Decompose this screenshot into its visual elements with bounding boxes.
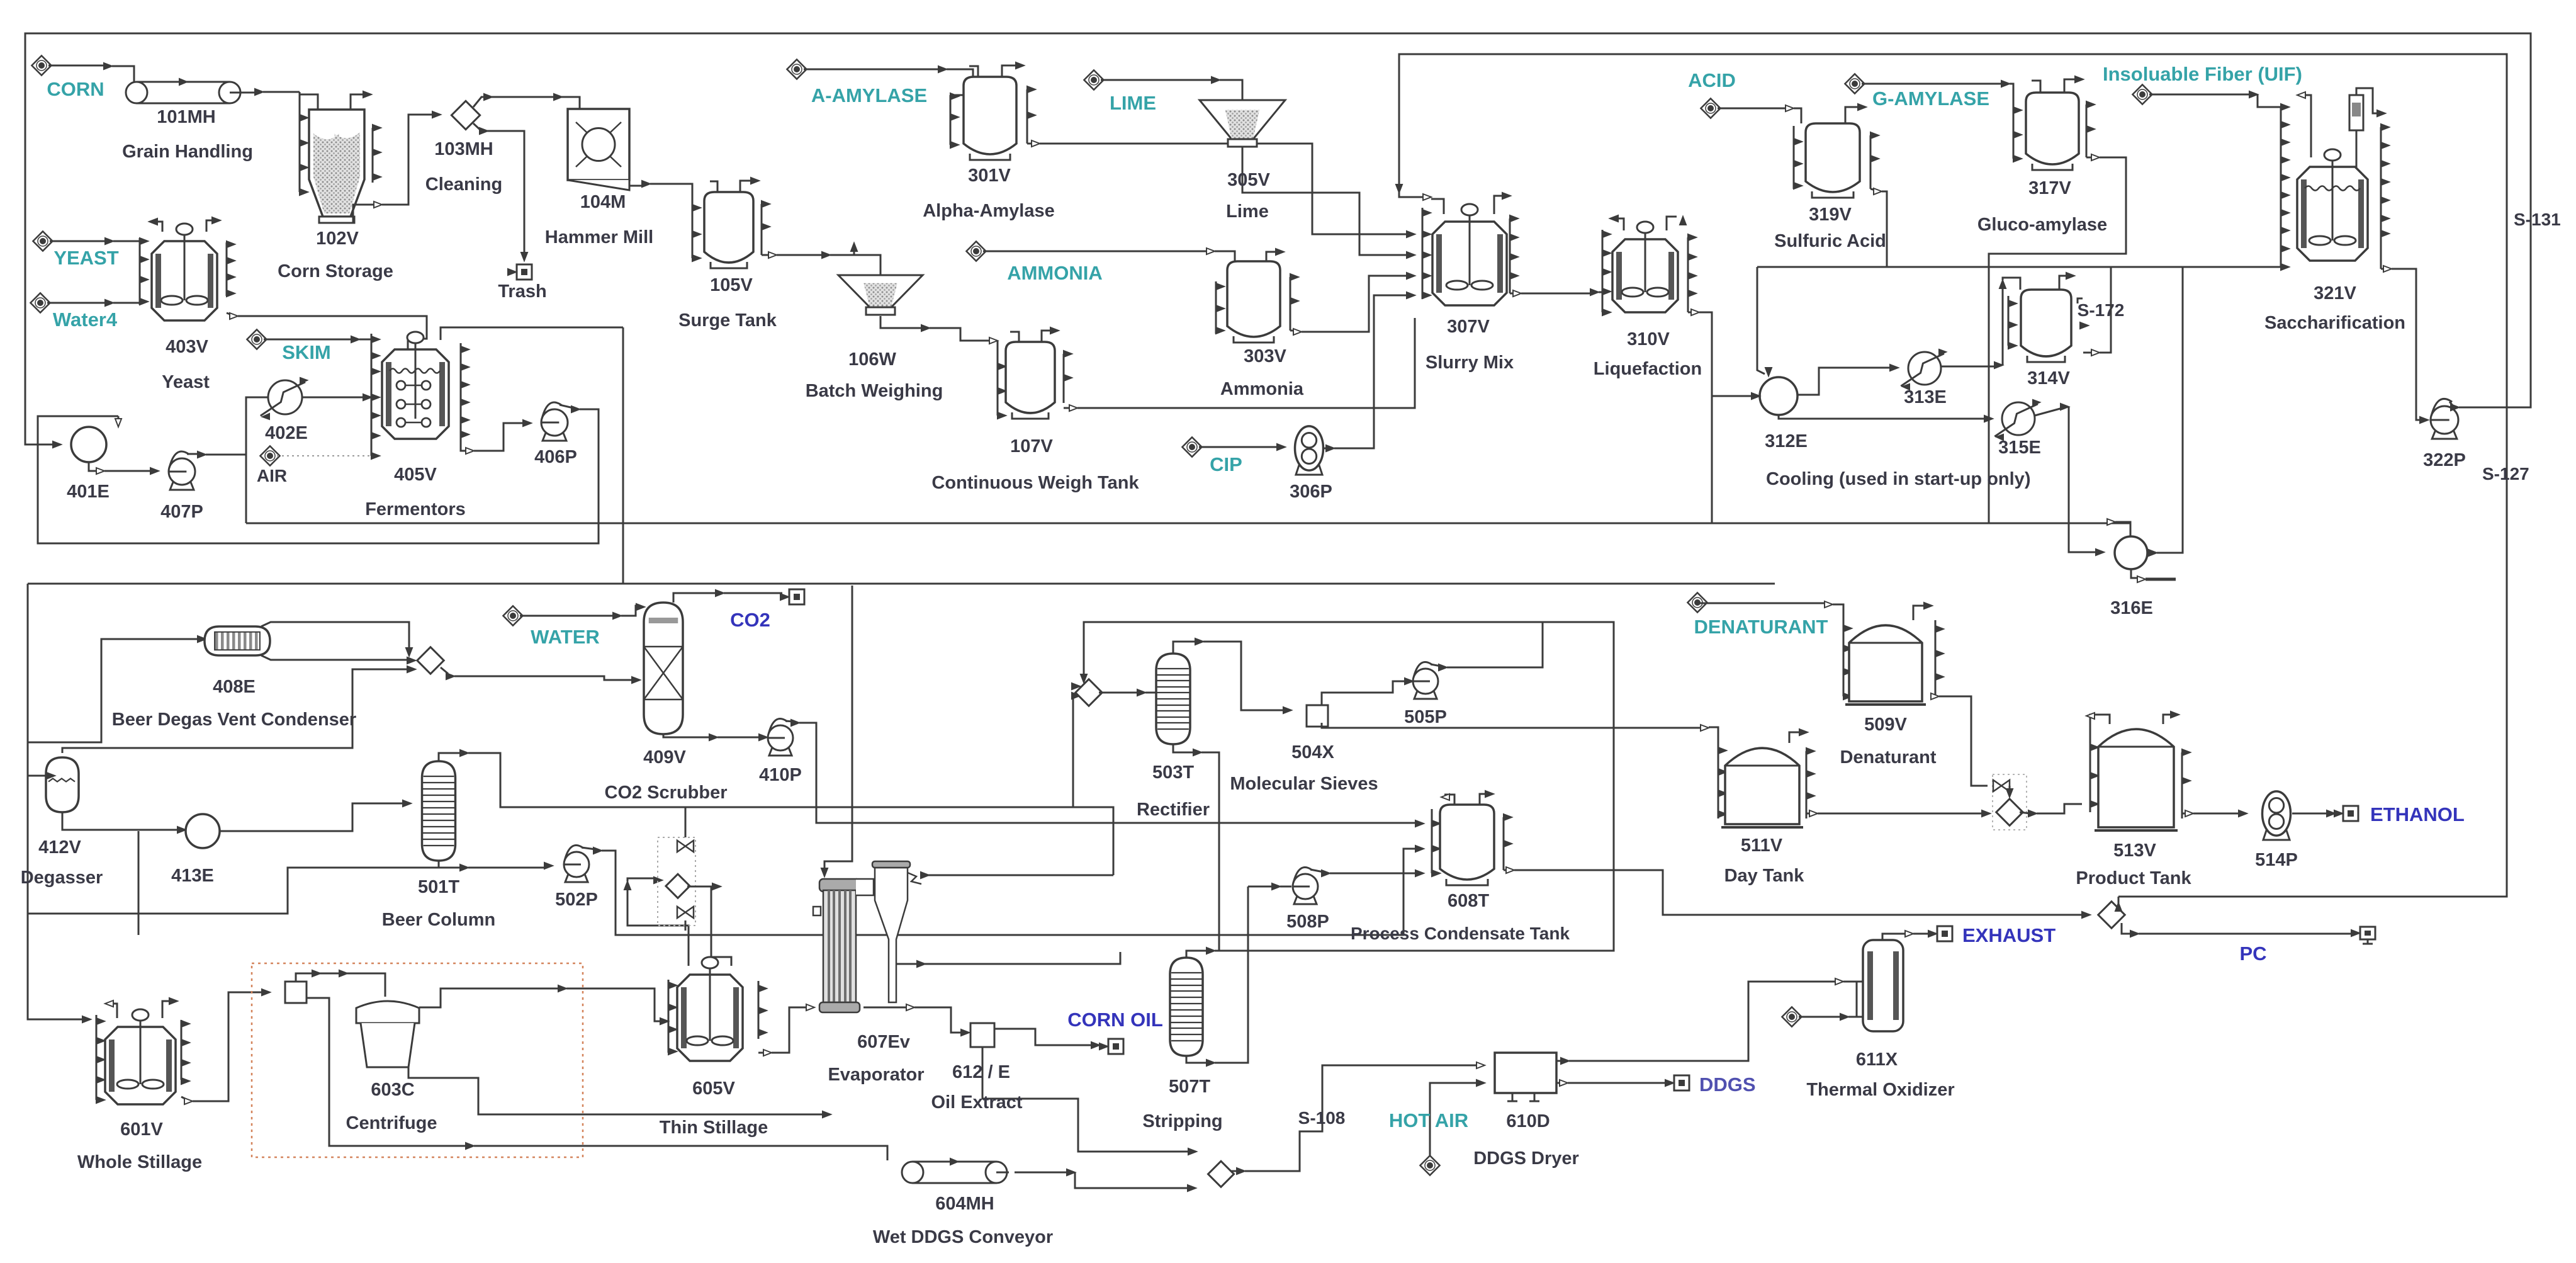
wire LIME to 305V [1101, 79, 1213, 81]
manifold 513V right [2181, 752, 2183, 818]
manifold 319V right [1870, 135, 1872, 189]
pump 508P [1294, 893, 1317, 904]
svg-text:PC: PC [2239, 943, 2266, 965]
manifold 601V left [96, 1015, 98, 1100]
wire 511V top right stub [1789, 732, 1801, 743]
tank 513V Product Tank [2098, 729, 2174, 827]
svg-text:Degasser: Degasser [21, 868, 103, 888]
wire UIF to 321V [2149, 94, 2251, 96]
svg-text:504X: 504X [1291, 742, 1334, 762]
svg-text:CO2 Scrubber: CO2 Scrubber [605, 783, 728, 803]
svg-text:Cooling (used in start-up only: Cooling (used in start-up only) [1766, 469, 2030, 489]
vessel 608T Process Condensate Tank [1440, 805, 1494, 880]
wire 601V top stubs [108, 1004, 117, 1018]
svg-text:402E: 402E [265, 423, 308, 443]
wire 305V outlet to slurry [1242, 147, 1409, 255]
svg-text:Water4: Water4 [53, 309, 118, 331]
pump 407P [170, 479, 194, 490]
node junction silo feed [300, 92, 318, 110]
svg-text:605V: 605V [692, 1079, 735, 1099]
wire 406P recycle loop [560, 405, 573, 408]
manifold 511V right [1806, 751, 1808, 818]
manifold 513V left [2089, 730, 2091, 812]
svg-text:612 / E: 612 / E [952, 1062, 1010, 1082]
svg-text:514P: 514P [2255, 850, 2298, 870]
output connector EXHAUST [1937, 926, 1952, 941]
input connector AMMONIA [966, 241, 986, 261]
wire 508P inlet from stripper [1248, 886, 1274, 888]
splitter 103MH Cleaning [451, 101, 480, 129]
wire 314V outlet [2083, 352, 2093, 354]
svg-text:HOT AIR: HOT AIR [1389, 1109, 1468, 1131]
svg-text:501T: 501T [418, 877, 459, 897]
svg-text:406P: 406P [534, 447, 577, 467]
wire 306P outlet to slurry [1324, 448, 1328, 450]
hopper 305V Lime [1200, 100, 1285, 139]
dashed box thin stillage valves [658, 837, 695, 926]
manifold 317V left [2013, 110, 2015, 159]
svg-text:503T: 503T [1152, 762, 1194, 783]
svg-text:Denaturant: Denaturant [1840, 747, 1936, 767]
wire branch to 408E [28, 639, 200, 742]
svg-text:410P: 410P [759, 765, 802, 785]
manifold 511V left [1718, 737, 1719, 818]
wire 316E outlet to 321V [2147, 552, 2151, 554]
wire 405V outlet to 406P [461, 441, 468, 451]
hopper 106W Batch Weighing [838, 275, 923, 307]
svg-text:G-AMYLASE: G-AMYLASE [1872, 88, 1989, 110]
wire 514P to ETHANOL [2292, 813, 2329, 815]
manifold 403V left [139, 238, 141, 305]
svg-text:405V: 405V [394, 465, 437, 485]
svg-text:ACID: ACID [1688, 69, 1736, 91]
svg-text:AMMONIA: AMMONIA [1007, 262, 1103, 284]
valve denaturant blend [1993, 780, 2010, 791]
mixer diamond thin stillage [666, 874, 690, 898]
manifold 317V right [2086, 105, 2088, 157]
wire 401E to 407P [89, 462, 98, 471]
input connector YEAST line [33, 231, 52, 251]
svg-text:603C: 603C [371, 1080, 414, 1100]
svg-text:511V: 511V [1741, 835, 1783, 856]
svg-text:513V: 513V [2113, 841, 2156, 861]
svg-text:CORN: CORN [47, 78, 104, 100]
wire DENATURANT to 509V [1700, 603, 1826, 604]
wire 315E to 316E feed leg [2035, 408, 2062, 416]
wire A-AMYLASE to 301V [804, 69, 940, 71]
svg-text:Oil Extract: Oil Extract [931, 1092, 1022, 1113]
wire 501T bottoms [438, 861, 440, 868]
output connector CO2 [789, 589, 804, 604]
wire 410P discharge to 608T header [785, 721, 793, 722]
manifold 605V left [668, 980, 670, 1053]
wire 504X product line to day tank [1322, 723, 1702, 728]
output connector CORN OIL [1108, 1039, 1123, 1054]
svg-text:Cleaning: Cleaning [425, 174, 502, 195]
svg-text:Slurry Mix: Slurry Mix [1426, 353, 1514, 373]
wire 511V outlet to blend diamond [1806, 813, 1811, 815]
valve lower [677, 907, 694, 918]
wire 321V top stubs [2300, 95, 2311, 157]
svg-text:306P: 306P [1290, 482, 1332, 502]
svg-text:S-172: S-172 [2078, 300, 2125, 320]
svg-text:322P: 322P [2423, 450, 2466, 470]
unit 612/E Oil Extract [970, 1023, 994, 1047]
wire 601V outlet to centrifuge box [181, 1097, 186, 1099]
vessel 303V Ammonia [1227, 261, 1280, 337]
wire 602X bottom branch [307, 998, 468, 1146]
output connector Trash [517, 264, 532, 280]
svg-text:310V: 310V [1627, 329, 1670, 349]
wire 303V outlet to slurry [1290, 330, 1295, 332]
output connector DDGS [1674, 1075, 1689, 1090]
wire riser to rectifier feed diamond [1073, 694, 1083, 807]
svg-text:319V: 319V [1809, 205, 1852, 225]
wire oil to CORN OIL [994, 1029, 1093, 1045]
manifold 102V left [299, 92, 301, 192]
heat exchanger 313E [1908, 352, 1941, 385]
svg-text:CORN OIL: CORN OIL [1067, 1009, 1163, 1031]
input connector A-AMYLASE [787, 59, 806, 79]
conveyor 101MH Grain Handling [137, 81, 230, 83]
manifold 601V right [181, 1020, 183, 1080]
svg-text:106W: 106W [848, 349, 896, 370]
svg-text:303V: 303V [1244, 346, 1286, 366]
svg-text:Whole Stillage: Whole Stillage [77, 1152, 202, 1172]
wire top feed into diamond [1084, 622, 1614, 680]
svg-text:ETHANOL: ETHANOL [2370, 803, 2465, 825]
reactor 605V Thin Stillage [677, 975, 743, 1061]
wire fermentor section riser [245, 455, 247, 523]
column 503T Rectifier [1156, 654, 1190, 744]
input connector SKIM [247, 329, 266, 349]
svg-text:313E: 313E [1904, 387, 1947, 407]
dryer 610D DDGS Dryer [1495, 1053, 1556, 1093]
mixer diamond rectifier feed [1076, 679, 1102, 706]
svg-text:Grain Handling: Grain Handling [122, 142, 253, 162]
wire 405V top right vent [441, 327, 623, 340]
svg-text:Wet DDGS Conveyor: Wet DDGS Conveyor [873, 1227, 1053, 1247]
svg-text:Process Condensate Tank: Process Condensate Tank [1351, 924, 1570, 943]
manifold 314V left [2008, 296, 2010, 346]
svg-text:Evaporator: Evaporator [828, 1065, 924, 1085]
wire evaporator bottoms to oil extract [863, 1007, 908, 1009]
condenser 408E Beer Degas Vent Condenser [205, 626, 270, 655]
wire 413E to beer column [220, 803, 405, 831]
wire CORN to conveyor [48, 65, 106, 67]
manifold 107V left [997, 341, 999, 416]
unit 504X Molecular Sieves [1307, 705, 1328, 727]
manifold 321V left [2280, 107, 2282, 267]
dashed box blend station [1993, 774, 2027, 830]
wire 312E bottom to 315E [1779, 415, 1986, 419]
svg-text:507T: 507T [1169, 1077, 1210, 1097]
wire 319V outlet acid to cooling loop [1870, 189, 1876, 190]
wire splitter to scrubber [441, 667, 448, 674]
wire mash line into 316E top [2107, 519, 2115, 525]
svg-text:Lime: Lime [1226, 201, 1269, 222]
output monitor PC [2360, 927, 2375, 939]
svg-text:Continuous Weigh Tank: Continuous Weigh Tank [931, 473, 1139, 493]
wire 503T overhead to sieves [1173, 642, 1197, 654]
wire diamond to 605V top right [687, 886, 731, 966]
svg-text:407P: 407P [160, 502, 203, 522]
svg-text:314V: 314V [2027, 368, 2070, 388]
svg-text:316E: 316E [2110, 598, 2153, 618]
wire 319V top right stub [1845, 107, 1860, 123]
svg-text:Fermentors: Fermentors [365, 499, 466, 519]
wire evaporator vapor riser join [1073, 807, 1113, 875]
oxidizer 611X Thermal Oxidizer [1863, 940, 1903, 1031]
wire 608T outlet to S-127 splitter [1504, 869, 1508, 871]
input connector CIP [1182, 437, 1201, 456]
wire 612/E syrup to wet cake [982, 1047, 1190, 1152]
wire evaporator side vapor outlet [896, 952, 1120, 964]
wire 608T top stubs [1444, 795, 1454, 805]
wire splitter to PC [2122, 923, 2132, 934]
wire ACID to 319V [1718, 108, 1787, 110]
svg-text:312E: 312E [1765, 431, 1808, 451]
manifold 303V left [1215, 281, 1217, 334]
wire degasser vent line to splitter [62, 669, 409, 753]
svg-text:Trash: Trash [498, 281, 546, 302]
wire oxidizer to EXHAUST [1882, 934, 1907, 940]
manifold 405V right [460, 343, 462, 441]
manifold 107V right [1063, 354, 1065, 403]
wire scrubber bottoms to 410P [663, 734, 711, 737]
svg-text:Saccharification: Saccharification [2264, 313, 2405, 333]
manifold 509V right [1935, 620, 1937, 696]
heat exchanger 413E [186, 814, 220, 848]
manifold 301V left [950, 95, 952, 145]
svg-text:321V: 321V [2314, 283, 2356, 303]
wire 303V top right stub [1266, 252, 1278, 261]
manifold 307V left [1422, 208, 1424, 299]
manifold 605V right [758, 981, 760, 1039]
wire 503T bottoms to stripper [1173, 744, 1195, 752]
manifold 509V left [1843, 614, 1845, 696]
wire 508P discharge to 608T [1310, 869, 1324, 872]
wire dryer vapor to oxidizer [1556, 1060, 1563, 1062]
svg-text:Liquefaction: Liquefaction [1594, 359, 1702, 379]
wire G-AMYLASE to 317V [1862, 83, 2003, 85]
svg-text:601V: 601V [120, 1119, 163, 1140]
wire 321V outlet to 322P [2381, 268, 2385, 270]
vessel 105V Surge Tank [704, 192, 753, 263]
svg-text:Surge Tank: Surge Tank [678, 310, 777, 331]
hammer mill 104M [568, 109, 629, 180]
wire AIR dashed to fermentor [277, 455, 371, 456]
svg-text:Gluco-amylase: Gluco-amylase [1977, 215, 2107, 235]
pump 514P [2263, 823, 2290, 840]
vessel 319V Sulfuric Acid [1806, 123, 1860, 192]
wire 402E to fermentor [302, 397, 365, 399]
svg-text:CO2: CO2 [730, 609, 770, 631]
svg-text:Product Tank: Product Tank [2076, 868, 2191, 888]
svg-text:305V: 305V [1227, 170, 1270, 190]
input connector HOT AIR [1420, 1155, 1439, 1175]
wire Water4 to 403V [47, 302, 107, 304]
svg-text:301V: 301V [968, 166, 1011, 186]
wire 310V outlet to mash line [1688, 312, 1693, 314]
svg-text:101MH: 101MH [157, 107, 216, 127]
svg-text:412V: 412V [38, 837, 81, 858]
pump 322P [2432, 427, 2457, 439]
wire 513V outlet to 514P [2182, 813, 2187, 815]
manifold 608T right [1503, 817, 1505, 870]
svg-text:509V: 509V [1864, 715, 1907, 735]
input connector DENATURANT [1687, 592, 1707, 612]
svg-text:413E: 413E [171, 866, 214, 886]
heat exchanger 402E [268, 380, 302, 414]
wire 507T bottoms to 508P [1186, 1056, 1208, 1063]
wire 605V outlet to evaporator [758, 1052, 765, 1054]
wire 513V top stubs [2090, 715, 2110, 730]
svg-text:102V: 102V [316, 229, 359, 249]
wire cleaning to hammer mill [473, 97, 580, 109]
svg-text:Hammer Mill: Hammer Mill [545, 227, 653, 247]
degasser 412V [46, 757, 79, 812]
svg-text:315E: 315E [1998, 438, 2041, 458]
svg-text:WATER: WATER [531, 626, 600, 648]
svg-text:403V: 403V [166, 337, 208, 357]
wire 317V top stubs [2032, 81, 2040, 93]
wire 107V top stubs [1010, 332, 1019, 342]
wire 105V top stubs [710, 181, 717, 192]
manifold 405V left [371, 334, 373, 456]
svg-text:DENATURANT: DENATURANT [1694, 616, 1828, 638]
column 507T Stripping [1170, 958, 1203, 1056]
svg-text:Rectifier: Rectifier [1137, 800, 1210, 820]
svg-text:103MH: 103MH [434, 139, 493, 159]
wire 307V outlet to 310V [1510, 293, 1515, 295]
svg-text:Centrifuge: Centrifuge [346, 1113, 437, 1133]
fermentor 405V [382, 349, 449, 439]
conveyor 604MH Wet DDGS Conveyor [913, 1161, 996, 1163]
wire stream S-127 top run (condensate recycle to 307V) [1399, 54, 2507, 897]
wire stream S-131 top run (322P to fermentation) [25, 33, 2531, 445]
manifold 303V right [1290, 277, 1291, 331]
svg-text:104M: 104M [580, 192, 626, 212]
vessel 314V [2021, 290, 2071, 356]
input connector combustion air [1782, 1007, 1801, 1026]
svg-text:Insoluable Fiber (UIF): Insoluable Fiber (UIF) [2103, 63, 2302, 85]
wire 602X to centrifuge top [296, 973, 385, 997]
svg-text:Beer Degas Vent Condenser: Beer Degas Vent Condenser [112, 710, 356, 730]
splitter diamond CO2 collection [417, 647, 444, 674]
input ETHANOL terminal [2343, 806, 2358, 821]
svg-text:Thermal Oxidizer: Thermal Oxidizer [1806, 1080, 1954, 1100]
svg-text:Molecular Sieves: Molecular Sieves [1230, 774, 1378, 794]
svg-text:610D: 610D [1506, 1111, 1550, 1131]
wire fermentor vent header 927 [28, 583, 1775, 585]
manifold 105V right [761, 204, 763, 255]
manifold 301V right [1026, 89, 1028, 144]
wire centrifuge centrate to 605V [419, 988, 560, 1007]
wire 316E bottom blowdown stub [2131, 569, 2139, 578]
reactor 307V Slurry Mix [1432, 222, 1507, 305]
wire 408E vapor stub to splitter [261, 622, 409, 654]
wire 102V outlet to cleaning [353, 205, 376, 223]
wire CIP to 306P [1199, 446, 1279, 448]
svg-text:604MH: 604MH [935, 1194, 994, 1214]
wire air to oxidizer [1799, 1016, 1842, 1018]
wire scrubber vent to CO2 [673, 593, 717, 603]
heat exchanger 401E [71, 427, 106, 462]
wire 605V top stubs [627, 885, 689, 966]
input connector Water4 [30, 293, 50, 312]
column 501T Beer Column [422, 761, 456, 861]
heat exchanger 315E [2002, 402, 2035, 435]
svg-text:Sulfuric Acid: Sulfuric Acid [1774, 231, 1886, 251]
svg-text:Alpha-Amylase: Alpha-Amylase [923, 201, 1055, 221]
svg-text:Day Tank: Day Tank [1724, 866, 1805, 886]
wire 322P outlet [2449, 402, 2453, 405]
manifold 307V right [1509, 218, 1511, 293]
wire beer into degasser [28, 775, 50, 777]
wire 405V vent drop [622, 327, 624, 584]
tank 509V Denaturant [1849, 625, 1922, 701]
wire vent stub on surge outlet [853, 246, 855, 255]
svg-text:Beer Column: Beer Column [382, 910, 495, 930]
input connector WATER [503, 606, 522, 625]
wire 501T overhead [439, 753, 462, 761]
manifold 105V left [692, 208, 694, 258]
wire centrifuge second outlet [408, 1067, 824, 1114]
pump 505P [1414, 688, 1437, 699]
svg-text:Corn Storage: Corn Storage [278, 261, 393, 281]
wire 504X to 505P [1322, 681, 1407, 705]
mixer diamond ethanol blend [1996, 799, 2023, 825]
heat exchanger 316E [2115, 536, 2147, 569]
wire YEAST to 403V [50, 241, 107, 242]
svg-text:107V: 107V [1010, 436, 1053, 456]
input connector LIME [1084, 70, 1103, 89]
splitter diamond wet DDGS [1208, 1161, 1234, 1187]
svg-text:502P: 502P [555, 890, 598, 910]
manifold 102V right [372, 128, 374, 183]
wire 301V top stubs [969, 66, 978, 77]
tank 511V Day Tank [1725, 748, 1799, 824]
vessel 301V Alpha-Amylase [964, 77, 1016, 154]
wire 401E top stub [118, 416, 120, 425]
valve upper [677, 841, 694, 852]
silo 102V Corn Storage [309, 110, 364, 217]
wire conveyor to 102V [242, 92, 257, 94]
wire beer header left vertical [28, 584, 84, 1019]
wire conveyor to splitter [1015, 1172, 1069, 1174]
pump 502P [565, 871, 588, 882]
svg-text:607Ev: 607Ev [857, 1032, 910, 1052]
svg-text:LIME: LIME [1110, 92, 1156, 114]
pump 306P [1296, 458, 1322, 475]
manifold 319V left [1793, 126, 1795, 189]
scrubber 409V CO2 Scrubber [644, 603, 683, 734]
wire 509V outlet to blend valve [1933, 696, 1935, 698]
wire mash line 830 (liquefaction to fermentors / 316E) [246, 523, 2130, 524]
wire diamond to 503T [1099, 692, 1139, 694]
svg-text:S-108: S-108 [1298, 1108, 1346, 1128]
svg-text:608T: 608T [1448, 891, 1489, 911]
pump 410P [769, 744, 792, 756]
input connector Insoluable Fiber [2132, 84, 2152, 104]
svg-text:317V: 317V [2028, 178, 2071, 198]
wire 408E liquid stub to splitter [261, 655, 409, 660]
heat exchanger 312E [1760, 377, 1797, 415]
svg-text:Stripping: Stripping [1142, 1111, 1222, 1131]
wire 507T overhead [1186, 951, 1208, 958]
wire 407P to 402E line [187, 453, 200, 455]
